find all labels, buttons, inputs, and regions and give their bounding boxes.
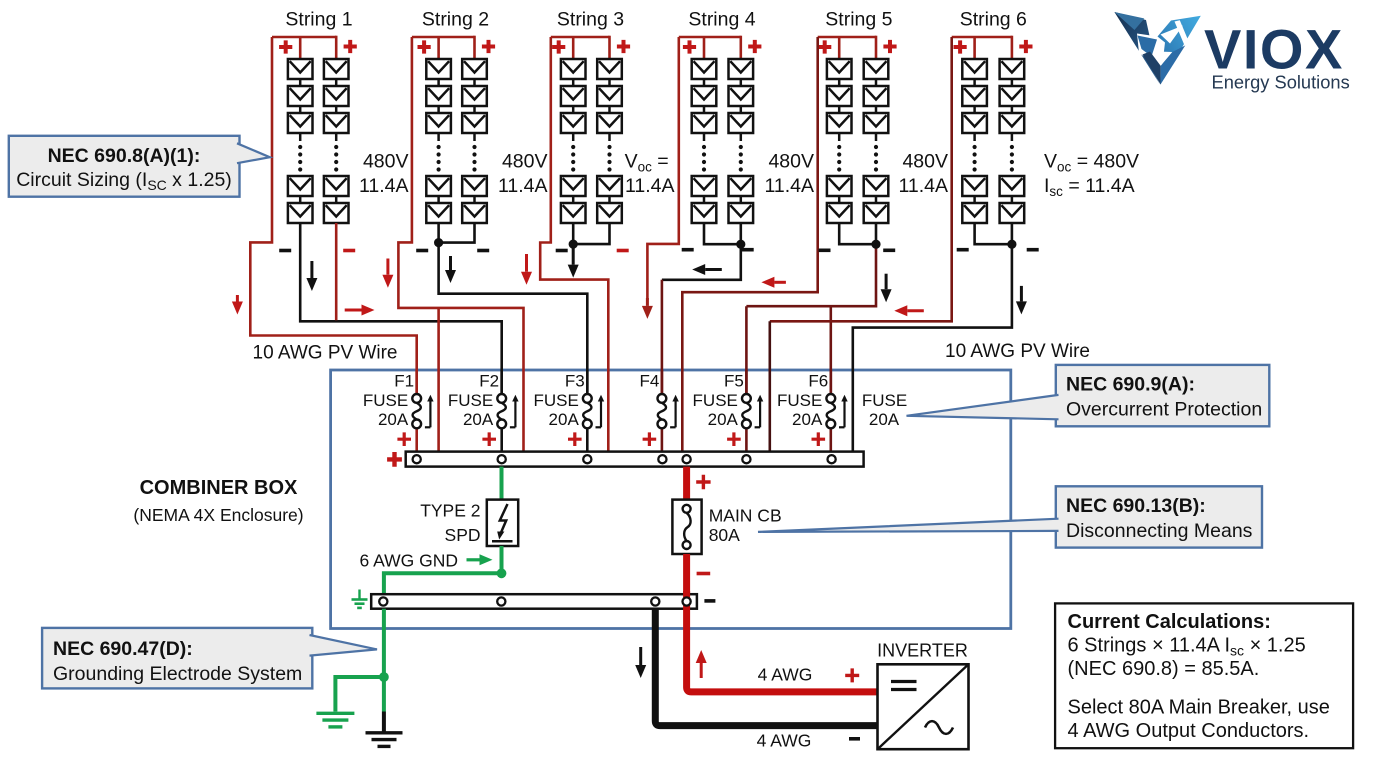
arrow red left string 5 bbox=[907, 309, 924, 312]
svg-text:20A: 20A bbox=[378, 410, 409, 429]
current calculations box bbox=[1055, 603, 1353, 748]
inverter bbox=[878, 664, 969, 749]
wire fuse F6 feed bbox=[829, 306, 832, 394]
svg-text:NEC 690.8(A)(1):: NEC 690.8(A)(1): bbox=[48, 145, 201, 167]
node string 1 minus left bbox=[279, 249, 291, 253]
wire fuse F4 feed bbox=[661, 280, 664, 394]
svg-text:10 AWG PV Wire: 10 AWG PV Wire bbox=[253, 343, 398, 364]
arrow current string 1 down bbox=[310, 261, 313, 278]
wire below fuse F3 bbox=[586, 428, 589, 451]
PV string 6 left column bbox=[962, 59, 987, 223]
svg-text:F6: F6 bbox=[808, 372, 828, 391]
svg-text:Select 80A Main Breaker, use: Select 80A Main Breaker, use bbox=[1068, 697, 1330, 719]
svg-text:(NEMA 4X Enclosure): (NEMA 4X Enclosure) bbox=[133, 505, 303, 525]
wire above fuse F2 bbox=[500, 370, 503, 394]
svg-text:20A: 20A bbox=[792, 410, 823, 429]
wire below fuse F5 bbox=[745, 428, 748, 451]
node string 4 plus left bbox=[683, 40, 696, 53]
svg-text:4 AWG: 4 AWG bbox=[757, 731, 812, 751]
arrow red down right of string 2 bbox=[386, 259, 389, 275]
wire SPD to ground bus bbox=[500, 546, 504, 573]
svg-text:FUSE: FUSE bbox=[777, 391, 822, 410]
node string 2 minus right bbox=[477, 249, 489, 253]
svg-text:11.4A: 11.4A bbox=[625, 175, 675, 197]
svg-text:6 AWG GND: 6 AWG GND bbox=[360, 551, 459, 571]
svg-text:6 Strings × 11.4A Isc × 1.25: 6 Strings × 11.4A Isc × 1.25 bbox=[1068, 635, 1306, 659]
wire string 5 top positive bus bbox=[818, 36, 876, 39]
svg-text:Energy Solutions: Energy Solutions bbox=[1212, 72, 1350, 93]
svg-text:FUSE: FUSE bbox=[862, 391, 907, 410]
busbar terminal x746 bbox=[742, 455, 750, 463]
PV string 3 left column bbox=[561, 59, 586, 223]
svg-text:NEC 690.9(A):: NEC 690.9(A): bbox=[1066, 374, 1195, 396]
busbar terminal x662 bbox=[658, 455, 666, 463]
busbar terminal x831 bbox=[828, 455, 836, 463]
svg-text:String 1: String 1 bbox=[285, 9, 352, 31]
fuse F5 bbox=[742, 394, 751, 403]
svg-text:Circuit Sizing (ISC x 1.25): Circuit Sizing (ISC x 1.25) bbox=[16, 169, 232, 193]
PV string 2 right column bbox=[462, 59, 487, 223]
wire below fuse F4 bbox=[661, 428, 664, 451]
PV string 2 left column bbox=[426, 59, 451, 223]
node string 1 plus left bbox=[279, 40, 292, 53]
PV string 1 left column bbox=[288, 59, 313, 223]
PV string 5 right column bbox=[864, 59, 889, 223]
wire below fuse F6 bbox=[829, 428, 832, 451]
svg-text:String 5: String 5 bbox=[825, 9, 892, 31]
node string 3 plus right bbox=[617, 40, 630, 53]
svg-text:String 6: String 6 bbox=[960, 9, 1027, 31]
wire string 1 negative run to fuse F2 bbox=[300, 223, 502, 394]
svg-text:FUSE: FUSE bbox=[448, 391, 493, 410]
busbar terminal x587 bbox=[583, 455, 591, 463]
ground electrode green bbox=[316, 712, 354, 715]
wire negative output 4 AWG bbox=[655, 609, 877, 726]
wire busbar to SPD bbox=[500, 467, 504, 500]
node plus above busbar at F3 bbox=[568, 432, 582, 446]
node plus above busbar at F6 bbox=[812, 432, 826, 446]
fuse F6 bbox=[826, 394, 835, 403]
node green junction at SPD bbox=[497, 568, 507, 578]
svg-text:SPD: SPD bbox=[445, 525, 481, 545]
svg-text:NEC 690.13(B):: NEC 690.13(B): bbox=[1066, 495, 1206, 517]
wire busbar to main CB bbox=[683, 467, 690, 500]
svg-text:11.4A: 11.4A bbox=[359, 175, 409, 197]
wire string 3 negative stubs bbox=[573, 223, 609, 244]
PV string 1 right column bbox=[324, 59, 349, 223]
svg-text:(NEC 690.8) = 85.5A.: (NEC 690.8) = 85.5A. bbox=[1068, 658, 1260, 680]
arrow current string 5 down bbox=[885, 274, 888, 290]
wire string 6 top positive bus bbox=[952, 36, 1012, 39]
arrow current string 4 positive bbox=[646, 298, 649, 306]
node string 6 minus right bbox=[1027, 248, 1039, 252]
svg-text:NEC 690.47(D):: NEC 690.47(D): bbox=[53, 638, 193, 660]
wire string 5 positive run to busbar bbox=[682, 37, 817, 451]
svg-text:4 AWG Output Conductors.: 4 AWG Output Conductors. bbox=[1068, 720, 1310, 742]
arrow red down left of string 1 bbox=[236, 295, 239, 302]
svg-text:COMBINER BOX: COMBINER BOX bbox=[140, 477, 298, 499]
busbar terminal ground 3 bbox=[651, 597, 659, 605]
node string 6 junction bbox=[1007, 240, 1016, 249]
busbar terminal ground 4 bbox=[683, 597, 691, 605]
callout NEC 690.9(A) bbox=[1056, 365, 1270, 426]
fuse F3 bbox=[583, 394, 592, 403]
busbar terminal ground 1 bbox=[379, 597, 387, 605]
arrow green right bbox=[467, 558, 480, 561]
arrow current string 4 left bbox=[705, 268, 722, 271]
svg-text:FUSE: FUSE bbox=[533, 391, 578, 410]
PV string 4 left column bbox=[692, 59, 717, 223]
node string 5 junction bbox=[871, 240, 880, 249]
wire below fuse F1 bbox=[415, 428, 418, 451]
VIOX logo mark bbox=[1114, 12, 1200, 85]
svg-text:480V: 480V bbox=[902, 151, 948, 173]
wire string 2 positive run to busbar bbox=[398, 37, 523, 451]
busbar terminal x686 bbox=[683, 455, 691, 463]
callout NEC 690.8(A)(1) bbox=[9, 136, 240, 197]
arrow red down right of string 3 bbox=[525, 254, 528, 272]
wire ground bus to electrodes bbox=[382, 609, 386, 677]
busbar terminal x501 bbox=[498, 455, 506, 463]
wire string 2 negative run to fuse F3 bbox=[439, 243, 588, 395]
node string 5 plus right bbox=[883, 40, 896, 53]
ground symbol small green bbox=[358, 590, 360, 599]
wire string 4 negative run to fuse F4 bbox=[704, 223, 741, 244]
node string 6 plus right bbox=[1019, 40, 1032, 53]
svg-text:11.4A: 11.4A bbox=[498, 175, 548, 197]
wire string 6 negative run to busbar bbox=[975, 223, 1012, 244]
svg-text:Grounding Electrode System: Grounding Electrode System bbox=[53, 663, 302, 685]
node string 2 minus left bbox=[416, 249, 428, 253]
node string 5 minus right bbox=[883, 249, 895, 253]
wire string 1 right column stub bbox=[335, 223, 338, 320]
node string 5 minus left bbox=[819, 249, 831, 253]
wire positive output 4 AWG bbox=[687, 591, 878, 692]
wire string 3 positive run to busbar bbox=[540, 37, 608, 451]
node plus at inverter input bbox=[845, 668, 859, 682]
node plus left of busbar bbox=[387, 452, 402, 467]
svg-text:480V: 480V bbox=[768, 151, 814, 173]
svg-text:FUSE: FUSE bbox=[363, 391, 408, 410]
wire above fuse F3 bbox=[586, 370, 589, 394]
svg-text:80A: 80A bbox=[709, 525, 740, 545]
node string 2 junction bbox=[434, 238, 443, 247]
svg-text:TYPE 2: TYPE 2 bbox=[420, 501, 480, 521]
wire string 3 top positive bus bbox=[551, 36, 610, 39]
node string 4 plus right bbox=[748, 40, 761, 53]
node plus above busbar at F4 bbox=[643, 432, 657, 446]
svg-text:String 3: String 3 bbox=[557, 9, 624, 31]
wire string 4 positive drop (open) bbox=[647, 37, 678, 300]
ground busbar bbox=[371, 594, 697, 609]
arrow current string 6 down bbox=[1020, 286, 1023, 302]
node string 5 plus left bbox=[818, 40, 831, 53]
wire string 2 top positive bus bbox=[412, 36, 475, 39]
wire above fuse F4 bbox=[661, 370, 664, 394]
node string 3 minus right bbox=[617, 249, 629, 253]
svg-text:11.4A: 11.4A bbox=[898, 175, 948, 197]
node string 3 plus left bbox=[552, 40, 565, 53]
arrow red left string 4-5 bbox=[774, 281, 786, 284]
wire string 6 positive run to busbar bbox=[770, 37, 952, 321]
wire fuse F5 feed bbox=[745, 306, 748, 394]
svg-text:F5: F5 bbox=[724, 372, 744, 391]
svg-text:Disconnecting Means: Disconnecting Means bbox=[1066, 520, 1253, 542]
svg-text:4 AWG: 4 AWG bbox=[758, 665, 813, 685]
wire main CB down bbox=[683, 554, 690, 593]
svg-text:Overcurrent Protection: Overcurrent Protection bbox=[1066, 399, 1262, 421]
PV string 4 right column bbox=[729, 59, 754, 223]
svg-text:FUSE: FUSE bbox=[693, 391, 738, 410]
node plus above busbar at F2 bbox=[482, 432, 496, 446]
wire below fuse F2 bbox=[500, 428, 503, 451]
wire above fuse F5 bbox=[745, 370, 748, 394]
arrow current output up bbox=[700, 663, 703, 678]
arrow current output down bbox=[639, 647, 642, 665]
svg-text:Current Calculations:: Current Calculations: bbox=[1068, 611, 1271, 633]
wire string 1 positive run to fuse F1 bbox=[250, 37, 416, 394]
node plus above busbar at F1 bbox=[397, 432, 411, 446]
node minus at inverter input bbox=[849, 737, 860, 741]
node string 1 minus right bbox=[343, 249, 355, 253]
node string 2 plus right bbox=[482, 40, 495, 53]
PV string 3 right column bbox=[597, 59, 622, 223]
node string 3 junction bbox=[569, 240, 578, 249]
wire above fuse F1 bbox=[415, 370, 418, 394]
svg-text:10 AWG PV Wire: 10 AWG PV Wire bbox=[945, 341, 1090, 362]
node string 1 plus right bbox=[344, 40, 357, 53]
node minus right of ground busbar bbox=[704, 599, 715, 603]
node plus above main CB bbox=[696, 475, 710, 489]
svg-text:20A: 20A bbox=[463, 410, 494, 429]
wire string 5 negative run bbox=[839, 223, 876, 244]
wire string 4 top positive bus bbox=[679, 36, 741, 39]
arrow red right string 1 bbox=[345, 309, 362, 312]
fuse F2 bbox=[497, 394, 506, 403]
node string 4 minus left bbox=[682, 248, 694, 252]
combiner box enclosure bbox=[331, 370, 1011, 629]
callout NEC 690.47(D) bbox=[42, 628, 312, 689]
node string 6 minus left bbox=[957, 248, 969, 252]
busbar terminal ground 2 bbox=[497, 597, 505, 605]
svg-text:F3: F3 bbox=[565, 372, 585, 391]
wire 6 AWG GND run bbox=[384, 573, 502, 594]
arrow current string 3 down bbox=[572, 246, 575, 265]
PV string 6 right column bbox=[1000, 59, 1025, 223]
wire above fuse F6 bbox=[829, 370, 832, 394]
node string 4 junction bbox=[736, 240, 745, 249]
svg-text:20A: 20A bbox=[708, 410, 739, 429]
svg-text:MAIN CB: MAIN CB bbox=[709, 506, 782, 526]
svg-text:480V: 480V bbox=[363, 151, 409, 173]
svg-text:480V: 480V bbox=[502, 151, 548, 173]
node plus above busbar at F5 bbox=[727, 432, 741, 446]
node string 6 plus left bbox=[954, 40, 967, 53]
busbar terminal x416 bbox=[413, 455, 421, 463]
svg-text:F4: F4 bbox=[639, 372, 659, 391]
ground electrode black bbox=[366, 731, 403, 734]
svg-text:F1: F1 bbox=[394, 372, 414, 391]
svg-text:String 2: String 2 bbox=[422, 9, 489, 31]
svg-text:20A: 20A bbox=[549, 410, 580, 429]
arrow current string 2 down bbox=[449, 256, 452, 270]
node string 3 minus left bbox=[556, 249, 568, 253]
svg-text:String 4: String 4 bbox=[688, 9, 755, 31]
node string 2 plus left bbox=[418, 40, 431, 53]
circuit breaker MAIN CB bbox=[672, 500, 701, 554]
node green junction electrodes bbox=[379, 672, 389, 682]
fuse F4 bbox=[658, 394, 667, 403]
node string 4 minus right bbox=[742, 248, 754, 252]
node minus below main CB bbox=[697, 572, 711, 576]
svg-text:INVERTER: INVERTER bbox=[877, 641, 968, 661]
surge protector SPD bbox=[487, 500, 518, 546]
callout NEC 690.13(B) bbox=[1056, 486, 1262, 547]
fuse F1 bbox=[412, 394, 421, 403]
positive busbar bbox=[406, 452, 864, 467]
svg-text:F2: F2 bbox=[479, 372, 499, 391]
svg-text:11.4A: 11.4A bbox=[764, 175, 814, 197]
PV string 5 left column bbox=[827, 59, 852, 223]
svg-text:20A: 20A bbox=[869, 410, 900, 429]
wire string 1 top positive bus bbox=[272, 36, 336, 39]
